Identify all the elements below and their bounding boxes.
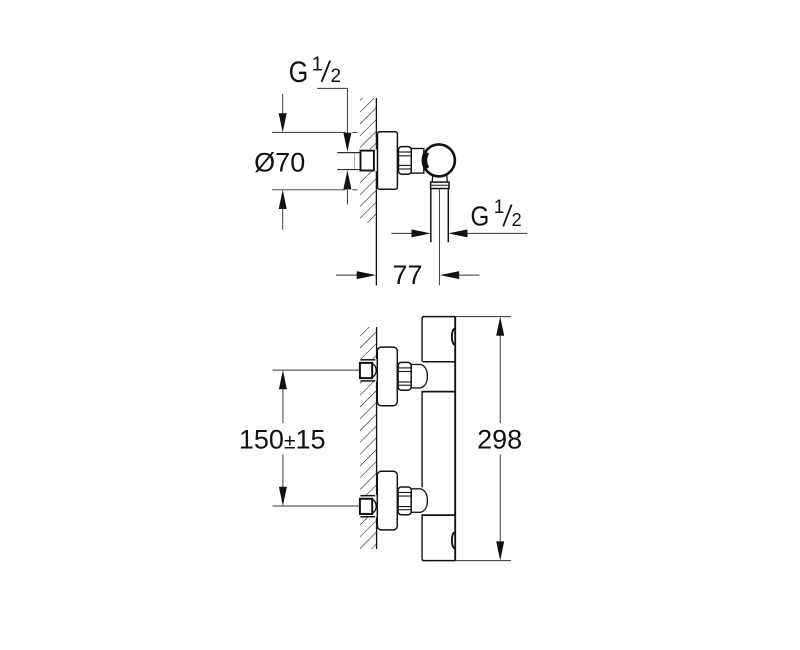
svg-text:77: 77 <box>392 260 422 290</box>
svg-text:298: 298 <box>477 424 522 454</box>
svg-text:2: 2 <box>331 66 342 87</box>
svg-text:Ø70: Ø70 <box>254 148 305 178</box>
svg-text:2: 2 <box>512 210 522 230</box>
svg-text:150±15: 150±15 <box>239 425 326 455</box>
svg-text:G: G <box>289 56 309 89</box>
svg-text:G: G <box>471 200 490 231</box>
svg-text:1: 1 <box>312 54 323 76</box>
svg-text:1: 1 <box>494 197 505 218</box>
